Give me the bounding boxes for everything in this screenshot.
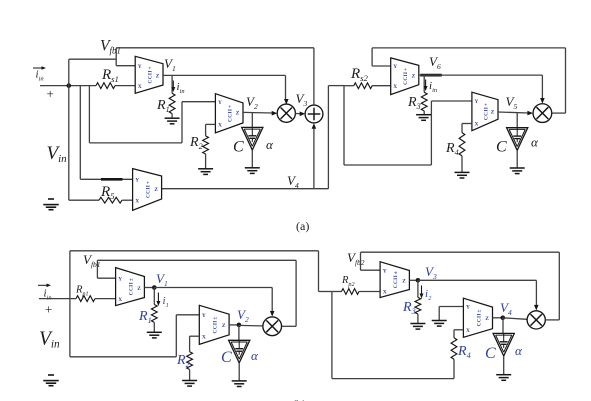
ground / minus terminal of Vin (a) xyxy=(43,199,58,210)
svg-text:α: α xyxy=(266,137,274,152)
wire Z of U7 to V2 node (b) xyxy=(229,324,239,326)
wire input node to Rs1 (a) xyxy=(40,85,96,87)
svg-text:X: X xyxy=(118,297,122,303)
svg-text:Z: Z xyxy=(485,316,489,322)
node V4 junction dot (b) xyxy=(501,316,506,321)
wire V1 to multiplier M3 top (b) xyxy=(154,288,272,313)
svg-text:CCII ±: CCII ± xyxy=(476,309,482,326)
wire V6 down to R3 (a) xyxy=(423,75,425,92)
wire V1 down to R1 (a) xyxy=(171,75,173,93)
wire V1 down to R1 (b) xyxy=(153,288,155,305)
wire R3 to ground (b) xyxy=(417,314,419,324)
svg-text:CCII ±: CCII ± xyxy=(213,316,219,333)
svg-text:Y: Y xyxy=(393,64,397,70)
capacitor C with amplifier alpha (b-left) xyxy=(229,340,250,363)
capacitor C with amplifier alpha (a-right) xyxy=(507,128,528,151)
resistor Rs2 xyxy=(354,83,372,89)
wire V5 down to capacitor block (a-right) xyxy=(516,112,518,127)
svg-text:+: + xyxy=(45,302,52,317)
wire Vfb1 feedback line (a) xyxy=(116,47,314,49)
wire X of U7 to R2 (b) xyxy=(190,336,200,352)
node V3 junction dot (b) xyxy=(416,278,421,283)
bold segment on Y wire of U3 xyxy=(101,178,123,181)
svg-text:Y: Y xyxy=(466,305,470,311)
ground under capacitor block (b-right) xyxy=(496,375,511,381)
svg-text:C: C xyxy=(485,345,496,362)
multiplier M2 (a) xyxy=(533,104,552,123)
wire X of U9 to R4 (b) xyxy=(454,330,463,338)
multiplier M1 (a) xyxy=(277,104,295,122)
wire input node down-loop to R4 (b) xyxy=(332,292,454,379)
op-amp U9 CCII+- fourth conveyor (b) xyxy=(463,298,492,337)
current arrow i_1 (b) xyxy=(156,293,168,310)
arrow into multiplier M3 top xyxy=(270,311,275,317)
svg-text:X: X xyxy=(135,198,139,204)
wire V4 up into summer (a) xyxy=(313,128,315,189)
node V1 junction dot (b) xyxy=(152,285,157,290)
current arrow i_in at R1 (a) xyxy=(171,81,184,96)
ground under R3 (b) xyxy=(410,324,425,330)
resistor R4 (a) xyxy=(459,133,465,156)
svg-text:CCII +: CCII + xyxy=(483,103,489,120)
arrow into summer bottom xyxy=(312,123,317,129)
current arrow i_2 (b) xyxy=(420,286,433,303)
svg-text:CCII +: CCII + xyxy=(228,105,234,122)
capacitor C with amplifier alpha (a-left) xyxy=(242,127,263,150)
current arrow i_in at R3 (a) xyxy=(424,80,437,95)
op-amp U2 CCII+ second conveyor (a) xyxy=(215,94,243,133)
wire V4 line from U3 Z (a) xyxy=(162,86,344,189)
wire Vfb2 feedback line (b) xyxy=(361,251,560,253)
wire V3 down to R3 (b) xyxy=(417,280,419,297)
wire input down to Y of U3 xyxy=(80,86,132,180)
svg-text:CCII +: CCII + xyxy=(146,181,152,198)
wire input loop down to Y of U7 (b) xyxy=(70,299,199,357)
svg-text:CCII ±: CCII ± xyxy=(393,271,399,288)
ground under capacitor block (a-right) xyxy=(510,168,525,174)
wire input up-branch to Y net (a) xyxy=(69,59,116,85)
ground under R1 (a) xyxy=(165,118,180,124)
wire Vfb1 feedback (b) xyxy=(97,260,296,326)
ground under R2 (a) xyxy=(198,169,213,175)
wire Vfb2 to Y of U8 xyxy=(361,252,381,270)
op-amp U4 CCII+ fourth conveyor (a) xyxy=(391,58,419,95)
ground at Y of U9 (b) xyxy=(432,321,447,327)
wire V3 to multiplier M4 top (b) xyxy=(418,280,537,306)
resistor Rs1 xyxy=(96,83,115,89)
arrow into summer left xyxy=(300,112,306,117)
wire R5 to X of U3 xyxy=(122,199,133,201)
ground under R2 (b) xyxy=(182,381,197,387)
ground under capacitor block (b-left) xyxy=(232,381,247,387)
wire Z of U9 to V4 node (b) xyxy=(493,317,503,319)
svg-text:CCII ±: CCII ± xyxy=(128,278,134,295)
resistor R4 (b) xyxy=(451,338,457,359)
wire Vfb2 vertical to Y of U4 xyxy=(372,48,391,66)
svg-text:Z: Z xyxy=(236,110,240,116)
ground / minus terminal of Vin (b) xyxy=(43,375,58,386)
multiplier M3 (b) xyxy=(263,317,282,336)
svg-text:α: α xyxy=(251,348,259,363)
wire Rp2 to X of U8 xyxy=(359,291,380,293)
svg-text:Z: Z xyxy=(156,74,160,80)
ground under R3 (a) xyxy=(416,115,431,121)
wire to Rp2 xyxy=(332,291,342,293)
svg-text:(a): (a) xyxy=(296,219,309,233)
wire V2 to multiplier M1 (a) xyxy=(243,111,273,114)
wire V1 to multiplier top (a) xyxy=(163,75,286,100)
svg-text:Y: Y xyxy=(135,178,139,184)
wire R2 to ground (b) xyxy=(189,370,191,381)
resistor Rp2 xyxy=(342,289,360,295)
op-amp U8 CCII+- third conveyor (b) xyxy=(380,262,409,298)
wire V2 down to capacitor block (b-left) xyxy=(238,325,240,340)
svg-text:α: α xyxy=(531,135,539,150)
wire capacitor block to ground (b-left) xyxy=(238,363,240,381)
wire capacitor block to ground (a-left) xyxy=(251,150,253,168)
resistor Rp1 xyxy=(76,296,95,302)
svg-text:CCII +: CCII + xyxy=(148,66,154,83)
wire M1 to summer (a) xyxy=(295,113,301,115)
svg-text:X: X xyxy=(383,290,387,296)
arrow into multiplier M1 top xyxy=(284,99,289,105)
svg-text:Y: Y xyxy=(118,276,122,282)
ground under capacitor block (a-left) xyxy=(245,168,260,174)
svg-text:X: X xyxy=(475,122,479,128)
node V2 junction dot (b) xyxy=(237,323,242,328)
wire M4 output feedback loop (b) xyxy=(545,252,559,320)
wire Z of U8 to V3 node (b) xyxy=(409,279,418,281)
wire R4 to ground (a) xyxy=(461,156,463,173)
capacitor C with amplifier alpha (b-right) xyxy=(493,333,514,356)
op-amp U3 CCII+ third conveyor (a) xyxy=(133,169,162,211)
summer S1 (a) xyxy=(305,105,323,123)
input current label i_in (a) xyxy=(33,66,46,83)
wire input down to R5 (a) xyxy=(69,86,99,201)
wire V5 to multiplier M2 (a) xyxy=(498,112,529,113)
svg-text:CCII +: CCII + xyxy=(403,68,409,85)
wire Vfb1 to Y of U6 xyxy=(97,260,115,278)
wire capacitor block to ground (b-right) xyxy=(503,356,505,375)
svg-text:+: + xyxy=(47,86,54,101)
resistor R2 (a) xyxy=(203,136,209,154)
resistor R3 (a) xyxy=(421,92,427,111)
svg-text:X: X xyxy=(138,84,142,90)
svg-text:Y: Y xyxy=(218,100,222,106)
svg-text:Z: Z xyxy=(154,187,158,193)
arrow into multiplier M1 left xyxy=(272,111,278,116)
op-amp U6 CCII+- first conveyor (b) xyxy=(116,268,145,306)
resistor R1 (b) xyxy=(151,305,157,323)
resistor R3 (b) xyxy=(415,297,421,314)
op-amp U7 CCII+- second conveyor (b) xyxy=(199,305,229,344)
arrow into multiplier M2 top xyxy=(540,98,545,104)
resistor R2 (b) xyxy=(187,352,193,370)
svg-text:Z: Z xyxy=(222,323,226,329)
wire Rs2 to X of U4 xyxy=(372,85,391,87)
svg-text:X: X xyxy=(393,84,397,90)
wire summer output up to Vfb1 (a) xyxy=(313,48,315,105)
wire Z of U6 to V1 node (b) xyxy=(144,287,154,289)
svg-text:Z: Z xyxy=(491,110,495,116)
svg-text:Z: Z xyxy=(412,73,416,79)
svg-text:Z: Z xyxy=(402,279,406,285)
bold segment on V6 wire xyxy=(420,74,442,77)
wire M2 output feedback loop (a) xyxy=(552,48,566,113)
wire V2 down to capacitor block (a) xyxy=(251,112,253,127)
svg-text:Z: Z xyxy=(137,286,141,292)
wire right input node down-loop (a) xyxy=(344,86,472,165)
wire V6 to multiplier M2 top (a) xyxy=(419,75,543,99)
svg-text:Y: Y xyxy=(475,99,479,105)
wire input down to Y of U2 xyxy=(89,86,215,143)
wire X of U2 to R2 xyxy=(206,124,216,135)
svg-text:C: C xyxy=(221,349,232,366)
input current label i_in (b) xyxy=(38,284,52,302)
wire X of U5 to R4 xyxy=(462,124,472,133)
wire capacitor block to ground (a-right) xyxy=(516,150,518,168)
multiplier M4 (b) xyxy=(527,311,545,329)
svg-text:Y: Y xyxy=(383,268,387,274)
svg-text:X: X xyxy=(202,334,206,340)
wire R3 to ground (a) xyxy=(423,111,425,115)
wire input loop up and to right circuit (b) xyxy=(70,251,332,299)
wire input to Rp1 (b) xyxy=(39,298,76,300)
arrow into multiplier M2 left xyxy=(527,111,533,116)
ground under R4 (a) xyxy=(455,172,470,178)
wire Y of U9 to ground (b) xyxy=(439,307,463,321)
resistor R1 (a) xyxy=(169,93,175,113)
svg-text:α: α xyxy=(515,343,523,358)
svg-text:Y: Y xyxy=(138,64,142,70)
svg-text:Y: Y xyxy=(202,313,206,319)
wire R1 to ground (b) xyxy=(153,322,155,332)
wire Rs1 to X of U1 xyxy=(115,85,135,87)
svg-text:X: X xyxy=(218,123,222,129)
wire R1 to ground (a) xyxy=(171,114,173,119)
op-amp U5 CCII+ fifth conveyor (a) xyxy=(472,92,498,131)
wire feedback line top (a-right) xyxy=(372,47,565,49)
wire V2 to multiplier M3 (b) xyxy=(239,324,263,327)
svg-text:X: X xyxy=(466,328,470,334)
wire V4 to multiplier M4 (b) xyxy=(503,318,527,320)
svg-text:C: C xyxy=(496,139,507,156)
op-amp U1 CCII+ first conveyor (a) xyxy=(135,56,163,93)
wire R2 to ground (a) xyxy=(205,154,207,169)
wire Rp1 to X of U6 xyxy=(95,298,116,300)
wire Vfb1 vertical to Y of U1 xyxy=(116,48,135,66)
node input junction (a) xyxy=(67,83,72,88)
wire node to Rs2 xyxy=(344,85,354,87)
ground under R1 (b) xyxy=(147,332,162,338)
wire V4 down to capacitor block (b-right) xyxy=(502,318,504,334)
arrow into multiplier M4 top xyxy=(534,305,539,311)
svg-text:C: C xyxy=(233,139,244,156)
resistor R5 xyxy=(99,197,122,203)
